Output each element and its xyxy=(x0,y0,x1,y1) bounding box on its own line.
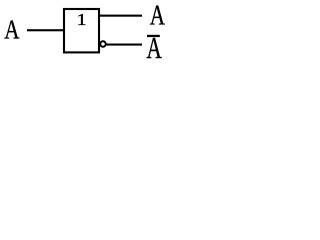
buffer/inverter element U1 (IEC box) xyxy=(64,9,99,52)
svg-text:A: A xyxy=(150,1,165,32)
wire (top output, true) xyxy=(99,15,142,17)
node A (true output label) xyxy=(150,1,165,32)
svg-text:1: 1 xyxy=(77,10,87,29)
svg-text:A: A xyxy=(4,15,20,45)
background xyxy=(0,0,175,64)
inversion bubble xyxy=(100,41,106,47)
wire (bottom output, inverted) xyxy=(107,44,143,46)
node A-bar (inverted output label with overbar) xyxy=(147,31,162,65)
gate function label "1" xyxy=(77,10,87,29)
node A (input label) xyxy=(4,15,20,45)
wire (input, node A to gate) xyxy=(27,29,65,31)
